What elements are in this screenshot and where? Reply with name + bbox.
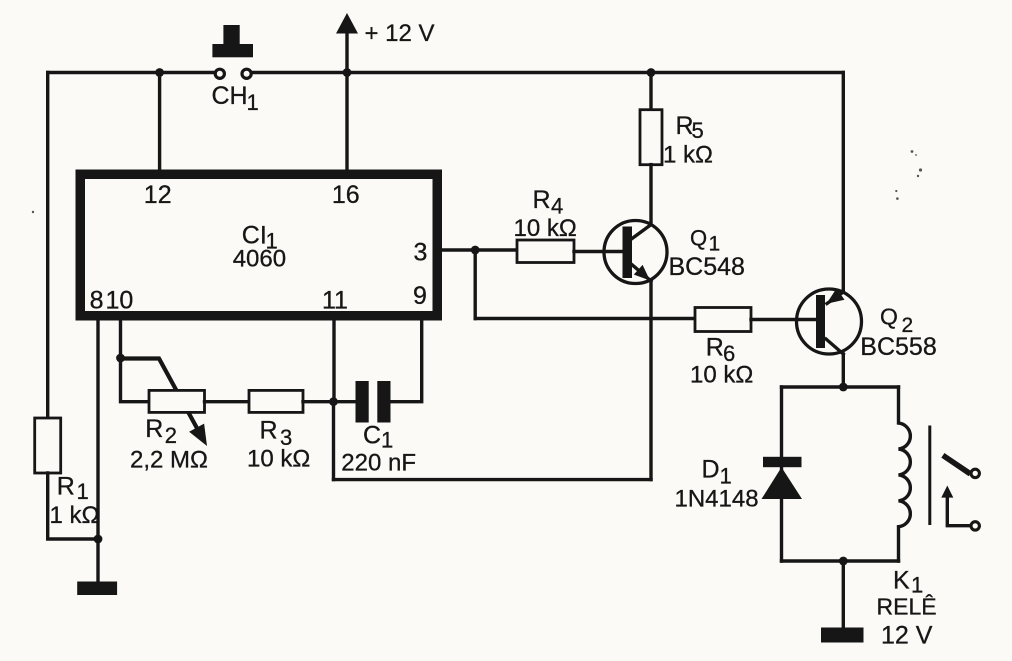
node junction relay top [839, 383, 848, 392]
svg-text:1: 1 [247, 90, 259, 115]
wire relay frame bottom [782, 559, 899, 562]
wire R5 bottom lead to Q1 collector [649, 165, 652, 225]
resistor R2 body [149, 390, 205, 412]
svg-text:2: 2 [165, 423, 177, 448]
wire relay frame top [782, 385, 899, 388]
node junction relay bottom [839, 557, 848, 566]
svg-text:12: 12 [144, 181, 172, 209]
wire pin 11 down [332, 314, 335, 402]
label R5 [676, 112, 704, 143]
wire R4 to Q1 base [574, 250, 623, 253]
node junction pin12/rail [155, 68, 164, 77]
label CI1 [242, 222, 278, 254]
svg-text:R: R [706, 333, 724, 361]
relay switch blade [945, 457, 968, 472]
node junction pin3 [471, 246, 480, 255]
resistor R5 [640, 110, 662, 165]
wire node to C1 [334, 400, 356, 403]
wire pin3 junction down [474, 250, 477, 319]
wire pin 10 down [119, 314, 122, 358]
svg-text:+ 12 V: + 12 V [365, 20, 435, 47]
svg-text:1N4148: 1N4148 [675, 486, 759, 513]
svg-text:10: 10 [106, 287, 134, 315]
wire pin 12 drop to IC [158, 73, 161, 177]
label Q1 [690, 226, 720, 256]
svg-text:Q: Q [880, 304, 898, 330]
relay common arrow wire [941, 486, 969, 526]
wire pin 8 down [96, 314, 99, 539]
svg-text:10 kΩ: 10 kΩ [690, 362, 753, 389]
node junction ground left [94, 535, 103, 544]
wire C1 to pin 9 [391, 314, 422, 402]
ground left [77, 582, 117, 596]
svg-text:3: 3 [414, 239, 428, 267]
svg-text:Q: Q [690, 226, 707, 251]
transistor Q1 BC548 [604, 221, 667, 284]
svg-text:12 V: 12 V [881, 622, 933, 650]
potentiometer R2 wiper [123, 359, 207, 447]
label C1 [363, 421, 393, 452]
svg-text:D: D [702, 456, 720, 484]
wire pin 16 drop to IC [345, 73, 348, 177]
svg-text:1 kΩ: 1 kΩ [50, 502, 100, 529]
wire R1 bottom to ground node [48, 473, 98, 539]
wire pin10 node to R2 [121, 358, 150, 402]
label R6 [706, 333, 735, 365]
svg-text:2,2 MΩ: 2,2 MΩ [130, 447, 208, 474]
wire Q2 collector to relay [842, 354, 845, 387]
resistor R4 [517, 240, 574, 263]
svg-text:1: 1 [77, 479, 89, 504]
resistor R1 [35, 418, 61, 473]
svg-text:16: 16 [332, 181, 360, 209]
label K1 [893, 567, 923, 598]
wire up from bottom to pin11 node [332, 402, 335, 480]
pushbutton CH1 [212, 25, 253, 78]
svg-text:8: 8 [90, 287, 104, 315]
wire R5 top lead [649, 73, 652, 110]
wire top rail left segment [48, 71, 215, 74]
svg-text:BC548: BC548 [669, 253, 745, 281]
wire bottom horizontal to pin11 node [334, 478, 652, 481]
svg-text:10 kΩ: 10 kΩ [514, 215, 577, 242]
svg-text:CH: CH [212, 82, 248, 110]
label Q2 [880, 304, 913, 338]
label D1 [702, 456, 732, 489]
relay contact circle upper [971, 469, 979, 477]
label R3 [260, 417, 293, 451]
wire R6 to Q2 base [751, 318, 816, 321]
wire base rail to R6 [475, 317, 695, 320]
svg-text:5: 5 [692, 118, 704, 143]
svg-text:11: 11 [322, 287, 348, 315]
wire R3 to node [303, 400, 334, 403]
label R1 [57, 473, 89, 505]
wire left vertical from rail [46, 73, 49, 419]
capacitor C1 [356, 381, 391, 423]
IC CI1 4060 box [80, 174, 437, 316]
svg-text:10 kΩ: 10 kΩ [247, 445, 310, 472]
wire R2 to R3 [205, 400, 250, 403]
svg-text:R: R [533, 186, 551, 214]
label CH1 [212, 82, 259, 115]
svg-text:220 nF: 220 nF [341, 449, 416, 476]
wire relay to ground [842, 561, 845, 628]
wire relay frame left (D1 branch) [780, 387, 783, 561]
svg-text:1 kΩ: 1 kΩ [663, 142, 713, 169]
label R2 [145, 415, 177, 448]
wire to left ground [96, 539, 99, 582]
diode D1 1N4148 [762, 457, 803, 499]
svg-text:K: K [893, 567, 910, 595]
relay K1 coil [899, 387, 911, 561]
svg-text:RELÊ: RELÊ [877, 594, 937, 620]
resistor R6 [695, 308, 751, 332]
label R4 [533, 186, 564, 219]
relay armature line [928, 427, 931, 524]
svg-text:BC558: BC558 [860, 333, 936, 361]
power +12V arrow [336, 13, 358, 73]
node junction pin11/R3/C1 [329, 397, 338, 406]
transistor Q2 BC558 [797, 288, 862, 354]
node junction pin10/wiper [116, 354, 125, 363]
ground right [821, 628, 864, 643]
resistor R3 [249, 390, 303, 412]
svg-text:C: C [363, 421, 381, 449]
wire Q1 emitter down [649, 281, 652, 480]
wire pin 3 out [440, 248, 517, 251]
svg-text:R: R [260, 417, 278, 445]
svg-text:R: R [145, 415, 163, 443]
svg-text:R: R [57, 473, 75, 501]
node junction R5/rail [647, 68, 656, 77]
svg-text:9: 9 [413, 282, 427, 310]
relay contact circle lower [971, 522, 979, 530]
node junction +12V/pin16 [343, 68, 352, 77]
svg-text:4060: 4060 [233, 246, 286, 273]
wire top rail right segment [252, 71, 843, 74]
wire right drop to Q2 emitter [842, 73, 845, 293]
